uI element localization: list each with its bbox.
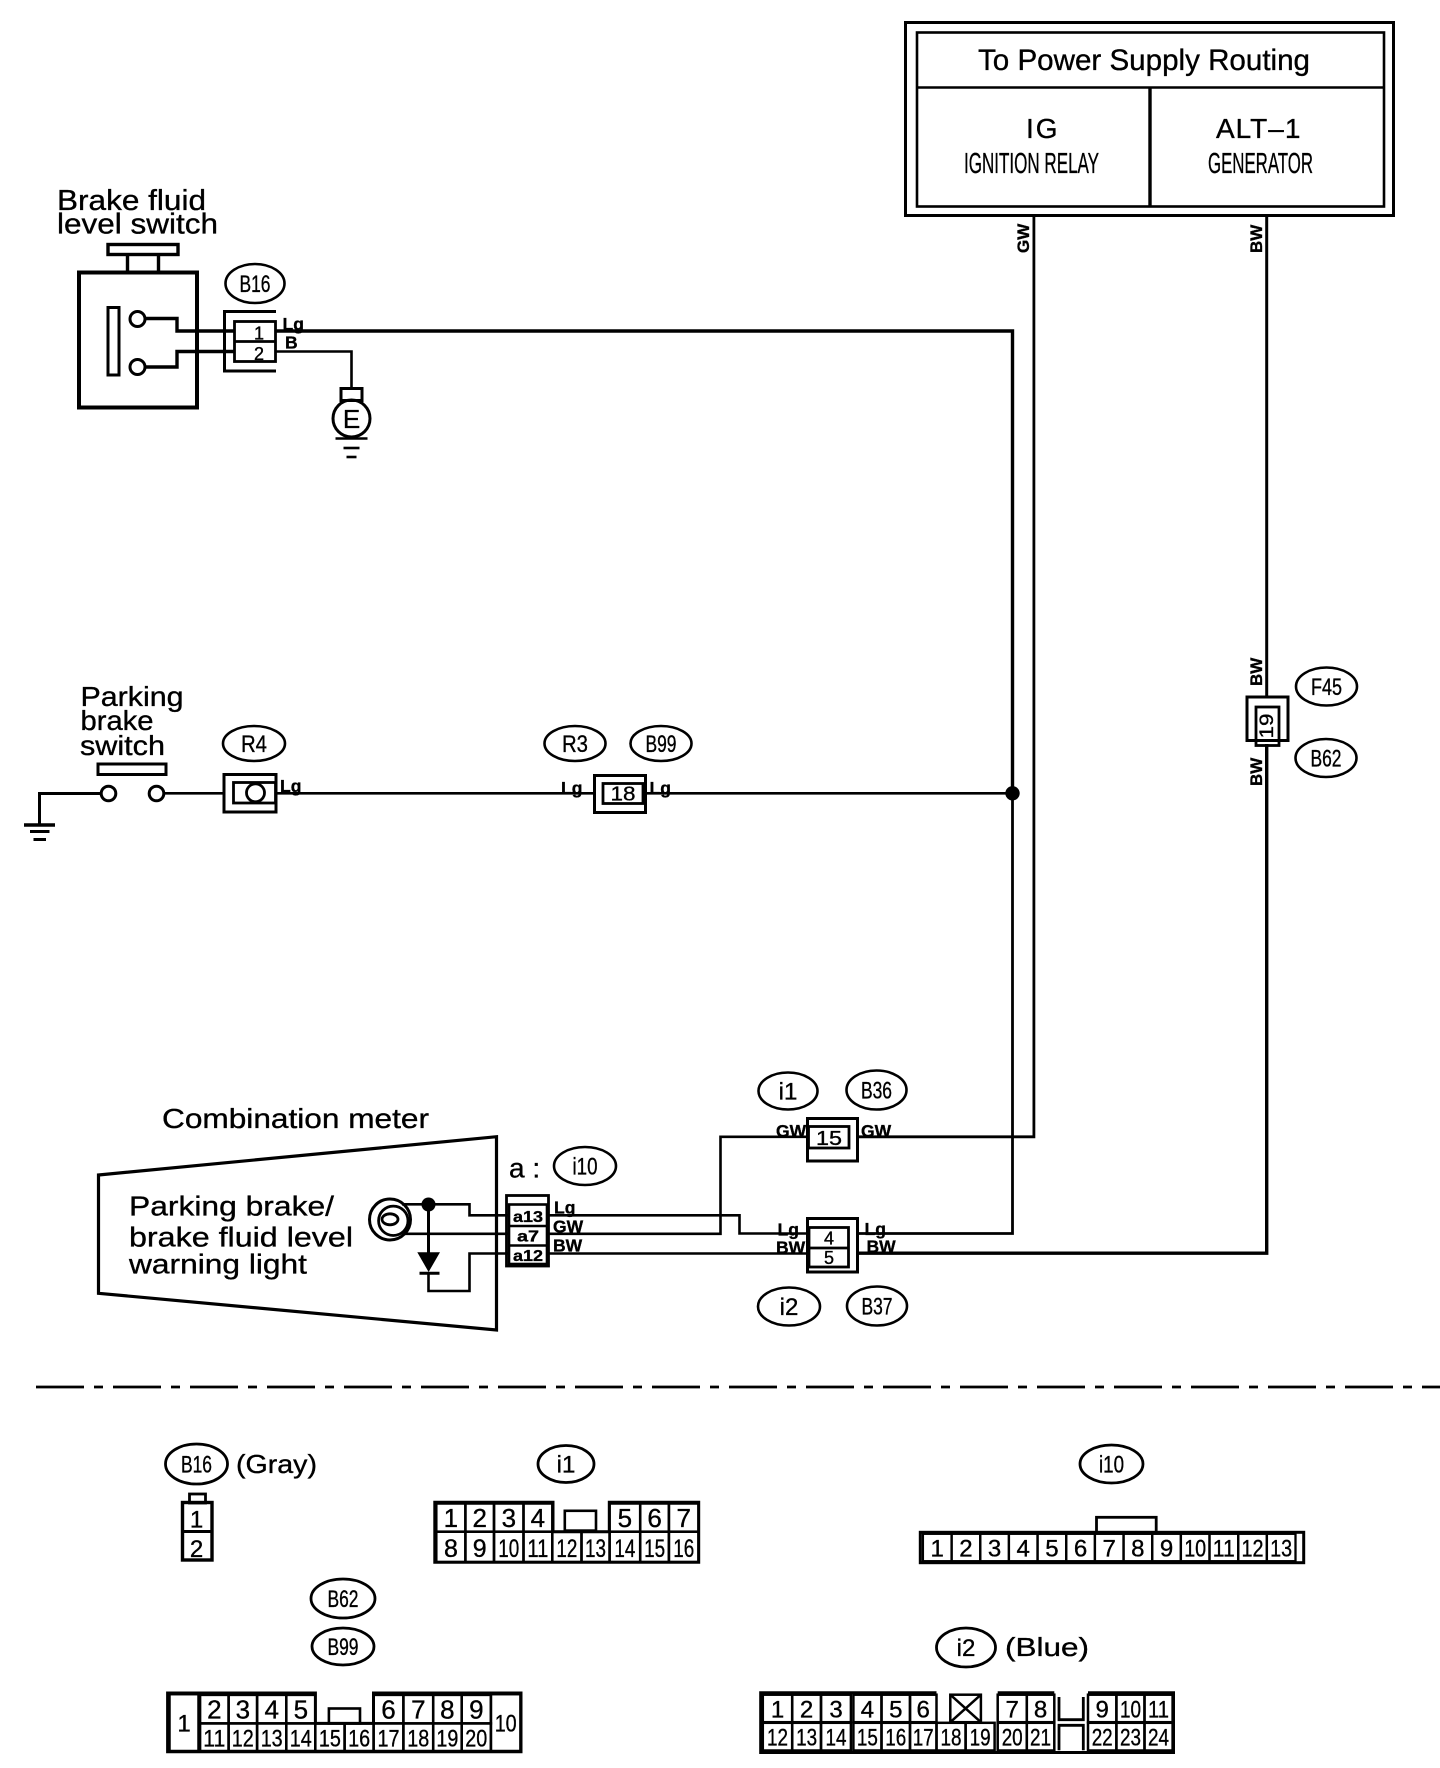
svg-text:1: 1 xyxy=(254,324,264,344)
svg-text:4: 4 xyxy=(531,1503,545,1533)
svg-text:B62: B62 xyxy=(1311,746,1342,773)
svg-text:14: 14 xyxy=(290,1726,312,1753)
svg-text:3: 3 xyxy=(236,1695,250,1725)
pin 19 xyxy=(966,1723,995,1751)
svg-text:5: 5 xyxy=(618,1503,632,1533)
svg-text:a7: a7 xyxy=(517,1229,539,1246)
svg-text:15: 15 xyxy=(319,1726,341,1753)
svg-text:B16: B16 xyxy=(181,1452,212,1479)
connector i10 pinout outline xyxy=(920,1532,1303,1562)
svg-text:5: 5 xyxy=(294,1695,308,1725)
connector i1 keying notch xyxy=(565,1511,596,1531)
connector R3 ellipse xyxy=(545,726,606,761)
svg-text:F45: F45 xyxy=(1311,674,1342,701)
pin 11 xyxy=(1210,1534,1239,1561)
svg-text:20: 20 xyxy=(1002,1725,1023,1752)
wire R4 to connector 18 xyxy=(276,792,594,795)
svg-text:17: 17 xyxy=(913,1725,934,1752)
pin 16 xyxy=(882,1723,911,1751)
pin 3 xyxy=(494,1504,524,1532)
pin 1 xyxy=(923,1534,952,1561)
svg-text:4: 4 xyxy=(824,1229,834,1249)
wire junction to i2 pin 4 xyxy=(858,793,1013,1233)
svg-text:(Blue): (Blue) xyxy=(1005,1632,1089,1662)
svg-text:BW: BW xyxy=(776,1238,806,1258)
pin 20 xyxy=(462,1723,491,1751)
pin 5 xyxy=(882,1695,911,1723)
connector i1 ellipse (schematic) xyxy=(759,1073,818,1110)
pin 14 xyxy=(286,1723,315,1751)
pin 10 xyxy=(1181,1534,1210,1561)
svg-text:5: 5 xyxy=(824,1248,834,1268)
connector R4 (diagram) xyxy=(224,775,276,813)
svg-text:ALT–1: ALT–1 xyxy=(1216,113,1301,144)
svg-text:12: 12 xyxy=(556,1535,577,1563)
svg-text:14: 14 xyxy=(826,1725,847,1752)
svg-text:switch: switch xyxy=(80,730,165,761)
wire bulb to a7 xyxy=(404,1233,509,1236)
svg-text:7: 7 xyxy=(676,1503,690,1533)
svg-text:13: 13 xyxy=(1270,1536,1292,1563)
pin 12 xyxy=(763,1723,792,1751)
svg-text:8: 8 xyxy=(444,1535,458,1563)
svg-text:To Power Supply Routing: To Power Supply Routing xyxy=(978,44,1310,77)
svg-text:Lg: Lg xyxy=(561,778,582,798)
svg-text:21: 21 xyxy=(1030,1725,1051,1752)
pin 1 xyxy=(170,1694,199,1751)
connector 19 xyxy=(1247,697,1288,746)
svg-text:15: 15 xyxy=(816,1128,842,1150)
svg-text:(Gray): (Gray) xyxy=(236,1449,317,1479)
svg-text:3: 3 xyxy=(988,1536,1001,1563)
power supply routing box xyxy=(906,23,1394,216)
connector i1 ellipse (bottom) xyxy=(538,1446,594,1483)
svg-text:B: B xyxy=(285,333,298,353)
connector B36 ellipse (schematic) xyxy=(847,1071,907,1110)
pin 2 xyxy=(200,1695,229,1724)
connector i10 keying notch xyxy=(1097,1517,1157,1533)
svg-text:9: 9 xyxy=(1096,1697,1109,1724)
wire GW vertical from IG to connector 15 xyxy=(859,216,1034,1137)
pin 4 xyxy=(524,1504,553,1532)
svg-text:24: 24 xyxy=(1148,1725,1169,1752)
pin 9 xyxy=(1152,1534,1181,1561)
wire a7 to connector 15 (GW) xyxy=(547,1137,808,1234)
svg-text:i10: i10 xyxy=(1099,1452,1124,1479)
svg-text:6: 6 xyxy=(381,1695,395,1725)
pin 14 xyxy=(610,1532,641,1562)
combination meter body xyxy=(99,1137,497,1330)
svg-text:13: 13 xyxy=(261,1726,283,1753)
svg-text:17: 17 xyxy=(378,1726,400,1753)
pin 7 xyxy=(669,1504,699,1532)
svg-text:3: 3 xyxy=(502,1503,516,1533)
pin 2 xyxy=(465,1504,494,1532)
connector R4 ellipse xyxy=(223,726,285,761)
svg-text:GW: GW xyxy=(776,1121,807,1141)
svg-text:GW: GW xyxy=(1014,223,1033,253)
svg-text:11: 11 xyxy=(527,1535,548,1563)
svg-text:a :: a : xyxy=(509,1153,540,1184)
svg-text:i2: i2 xyxy=(957,1635,976,1662)
pin 13 xyxy=(582,1532,610,1562)
svg-text:2: 2 xyxy=(207,1695,221,1725)
pin 9 xyxy=(462,1695,491,1724)
svg-text:1: 1 xyxy=(444,1503,458,1533)
svg-text:i10: i10 xyxy=(573,1154,598,1181)
pin 12 xyxy=(552,1532,581,1562)
svg-text:7: 7 xyxy=(1103,1536,1116,1563)
pin 4 xyxy=(257,1695,286,1724)
pin 11 xyxy=(1145,1695,1173,1723)
pin 18 xyxy=(937,1723,966,1751)
svg-text:1: 1 xyxy=(931,1536,944,1563)
svg-text:22: 22 xyxy=(1092,1725,1113,1752)
pin 6 xyxy=(374,1695,404,1724)
connector i2 pinout outline xyxy=(761,1693,1174,1753)
keying slot (top row) xyxy=(1059,1697,1083,1720)
svg-text:19: 19 xyxy=(436,1726,458,1753)
pin 15 xyxy=(853,1723,881,1751)
connector 18 xyxy=(595,776,646,813)
connector B37 ellipse (schematic) xyxy=(847,1287,907,1326)
pin 6 xyxy=(910,1695,937,1723)
pin 10 xyxy=(1116,1695,1144,1723)
svg-text:11: 11 xyxy=(203,1726,225,1753)
pin 6 xyxy=(1066,1534,1095,1561)
junction node xyxy=(1005,786,1019,800)
pin 7 xyxy=(998,1695,1027,1723)
wire bulb to a13 xyxy=(402,1204,509,1215)
svg-text:16: 16 xyxy=(673,1535,694,1563)
svg-text:2: 2 xyxy=(800,1697,813,1724)
connector B62 ellipse (bottom) xyxy=(311,1579,375,1618)
svg-text:7: 7 xyxy=(411,1695,425,1725)
pin 7 xyxy=(1095,1534,1124,1561)
pin 1 xyxy=(436,1504,465,1532)
pin 13 xyxy=(257,1723,286,1751)
svg-text:2: 2 xyxy=(959,1536,972,1563)
connector i2 outline top segment xyxy=(998,1691,1055,1694)
svg-text:9: 9 xyxy=(1160,1536,1173,1563)
svg-text:5: 5 xyxy=(889,1697,902,1724)
connector B16 (diagram) xyxy=(225,312,277,372)
svg-text:11: 11 xyxy=(1213,1536,1235,1563)
pin 18 xyxy=(403,1723,433,1751)
brake fluid level switch body xyxy=(79,245,235,408)
svg-text:18: 18 xyxy=(407,1726,429,1753)
svg-text:B37: B37 xyxy=(862,1294,893,1321)
connector i10 ellipse (bottom) xyxy=(1080,1445,1143,1483)
connector 15 xyxy=(808,1119,858,1162)
svg-text:11: 11 xyxy=(1148,1697,1169,1724)
svg-text:a13: a13 xyxy=(513,1209,543,1226)
svg-text:12: 12 xyxy=(767,1725,788,1752)
connector B16 ellipse (bottom) xyxy=(166,1444,228,1484)
connector i10 ellipse (schematic) xyxy=(554,1147,616,1185)
svg-text:2: 2 xyxy=(254,344,264,364)
connector B16 pinout xyxy=(183,1494,213,1560)
svg-text:9: 9 xyxy=(469,1695,483,1725)
svg-text:6: 6 xyxy=(917,1697,930,1724)
svg-text:8: 8 xyxy=(1034,1697,1047,1724)
pin 12 xyxy=(1238,1534,1267,1561)
pin 15 xyxy=(640,1532,669,1562)
svg-text:IGNITION RELAY: IGNITION RELAY xyxy=(964,148,1099,180)
pin 17 xyxy=(374,1723,404,1751)
pin 4 xyxy=(1009,1534,1038,1561)
pin 11 xyxy=(200,1723,229,1751)
svg-text:IG: IG xyxy=(1026,113,1060,144)
pin 20 xyxy=(998,1723,1027,1751)
pin 15 xyxy=(315,1723,344,1751)
svg-text:BW: BW xyxy=(1247,224,1266,253)
connector B62 ellipse xyxy=(1296,739,1357,777)
connector B99 ellipse (bottom) xyxy=(312,1628,374,1665)
pin 16 xyxy=(345,1723,374,1751)
wire a13 to i2 pin 4 (Lg) xyxy=(547,1215,808,1233)
svg-text:4: 4 xyxy=(861,1697,874,1724)
svg-text:R3: R3 xyxy=(562,731,588,758)
svg-text:GENERATOR: GENERATOR xyxy=(1208,148,1313,180)
svg-text:4: 4 xyxy=(1017,1536,1030,1563)
svg-text:13: 13 xyxy=(585,1535,606,1563)
pin 2 xyxy=(792,1695,821,1723)
svg-text:Lg: Lg xyxy=(650,778,671,798)
svg-text:13: 13 xyxy=(796,1725,817,1752)
pin 9 xyxy=(465,1532,494,1562)
pin 12 xyxy=(229,1723,258,1751)
svg-text:2: 2 xyxy=(472,1503,486,1533)
pin 5 xyxy=(1038,1534,1067,1561)
pin 3 xyxy=(980,1534,1009,1561)
svg-text:GW: GW xyxy=(861,1121,892,1141)
svg-text:4: 4 xyxy=(264,1695,278,1725)
pin 14 xyxy=(821,1723,851,1751)
svg-text:i1: i1 xyxy=(779,1079,798,1106)
pin 5 xyxy=(610,1504,641,1532)
pin 3 xyxy=(229,1695,258,1724)
svg-text:6: 6 xyxy=(647,1503,661,1533)
pin 10 xyxy=(494,1532,524,1562)
pin 8 xyxy=(1124,1534,1153,1561)
pin 8 xyxy=(433,1695,462,1724)
svg-text:16: 16 xyxy=(885,1725,906,1752)
svg-text:1: 1 xyxy=(190,1507,203,1534)
svg-text:5: 5 xyxy=(1045,1536,1058,1563)
connector i2 ellipse (schematic) xyxy=(758,1288,820,1326)
wire switch to R4 xyxy=(164,792,224,795)
connector 4/5 xyxy=(808,1219,858,1273)
wire B16 pin1 to junction xyxy=(276,331,1013,793)
svg-text:7: 7 xyxy=(1006,1697,1019,1724)
svg-text:Combination meter: Combination meter xyxy=(162,1103,429,1134)
meter pin block a13/a7/a12 xyxy=(507,1196,549,1267)
svg-text:warning light: warning light xyxy=(128,1249,307,1280)
svg-text:19: 19 xyxy=(970,1725,991,1752)
pin 5 xyxy=(286,1695,315,1724)
svg-text:9: 9 xyxy=(473,1535,487,1563)
lamp (warning light bulb) xyxy=(370,1199,411,1240)
pin 4 xyxy=(853,1695,881,1723)
connector B62/B99 pinout outline xyxy=(168,1693,521,1752)
svg-text:19: 19 xyxy=(1257,714,1278,739)
pin 22 xyxy=(1088,1723,1116,1751)
svg-text:8: 8 xyxy=(440,1695,454,1725)
svg-text:20: 20 xyxy=(465,1726,487,1753)
pin 13 xyxy=(792,1723,821,1751)
svg-text:a12: a12 xyxy=(513,1248,543,1265)
parking brake switch xyxy=(98,764,166,801)
svg-text:Lg: Lg xyxy=(778,1220,799,1240)
connector B16 ellipse xyxy=(226,264,285,303)
svg-text:B36: B36 xyxy=(861,1078,892,1105)
svg-text:R4: R4 xyxy=(241,731,267,758)
svg-text:3: 3 xyxy=(829,1697,842,1724)
pin 10 xyxy=(491,1694,521,1751)
svg-text:B16: B16 xyxy=(240,271,271,298)
svg-text:23: 23 xyxy=(1120,1725,1141,1752)
svg-text:1: 1 xyxy=(771,1697,784,1724)
separator dashed line xyxy=(36,1386,1440,1389)
wire 18 to junction xyxy=(646,792,1013,795)
svg-text:18: 18 xyxy=(941,1725,962,1752)
svg-text:10: 10 xyxy=(495,1711,517,1738)
svg-text:2: 2 xyxy=(190,1536,203,1563)
pin 21 xyxy=(1027,1723,1055,1751)
connector i2 ellipse (bottom) xyxy=(937,1628,996,1667)
keying slot (bottom row) xyxy=(1059,1725,1083,1750)
svg-text:8: 8 xyxy=(1131,1536,1144,1563)
ground xyxy=(24,825,55,840)
svg-text:E: E xyxy=(343,404,360,434)
svg-text:i1: i1 xyxy=(557,1452,576,1479)
svg-text:level switch: level switch xyxy=(57,209,218,241)
pin 3 xyxy=(821,1695,851,1723)
pin 24 xyxy=(1145,1723,1173,1751)
svg-text:BW: BW xyxy=(867,1237,897,1257)
pin 17 xyxy=(910,1723,937,1751)
svg-text:B99: B99 xyxy=(328,1634,359,1661)
svg-text:BW: BW xyxy=(1247,757,1266,786)
wire diode to a12 xyxy=(429,1254,510,1292)
blocked pin (X) xyxy=(950,1695,981,1723)
svg-text:6: 6 xyxy=(1074,1536,1087,1563)
pin 11 xyxy=(524,1532,553,1562)
svg-text:15: 15 xyxy=(644,1535,665,1563)
svg-text:10: 10 xyxy=(1120,1697,1141,1724)
wire a12 to i2 pin 5 (BW) xyxy=(547,1252,809,1255)
node (bulb junction) xyxy=(422,1198,436,1212)
pin 6 xyxy=(640,1504,669,1532)
pin 2 xyxy=(952,1534,981,1561)
diode D xyxy=(427,1205,430,1253)
connector B99 ellipse xyxy=(631,726,692,761)
pin 23 xyxy=(1116,1723,1144,1751)
svg-text:B99: B99 xyxy=(646,731,677,758)
wire BW vertical from ALT-1 to connector 19 xyxy=(1265,216,1268,698)
svg-text:12: 12 xyxy=(232,1726,254,1753)
pin 8 xyxy=(436,1532,465,1562)
ground E xyxy=(333,389,370,458)
svg-text:12: 12 xyxy=(1242,1536,1264,1563)
pin 1 xyxy=(763,1695,792,1723)
connector F45 ellipse xyxy=(1296,668,1357,706)
wire switch to ground xyxy=(40,794,102,825)
svg-text:Parking brake/: Parking brake/ xyxy=(129,1191,334,1222)
pin 13 xyxy=(1267,1534,1296,1561)
svg-text:10: 10 xyxy=(1184,1536,1206,1563)
connector B62/B99 keying notch xyxy=(329,1709,360,1724)
svg-text:B62: B62 xyxy=(328,1586,359,1613)
svg-text:16: 16 xyxy=(348,1726,370,1753)
svg-text:BW: BW xyxy=(1247,657,1266,686)
pin 8 xyxy=(1027,1695,1055,1723)
svg-text:10: 10 xyxy=(498,1535,519,1563)
connector i1 pinout outline xyxy=(435,1502,699,1562)
svg-text:18: 18 xyxy=(611,784,636,806)
wire B16 pin2 to ground E xyxy=(276,352,352,389)
pin 9 xyxy=(1088,1695,1116,1723)
svg-text:14: 14 xyxy=(614,1535,635,1563)
pin 19 xyxy=(433,1723,462,1751)
pin 7 xyxy=(403,1695,433,1724)
svg-text:i2: i2 xyxy=(780,1294,799,1321)
pin 16 xyxy=(669,1532,699,1562)
wire BW from connector 19 down to i2 pin 5 xyxy=(858,744,1267,1253)
svg-text:15: 15 xyxy=(857,1725,878,1752)
svg-text:1: 1 xyxy=(177,1711,190,1738)
